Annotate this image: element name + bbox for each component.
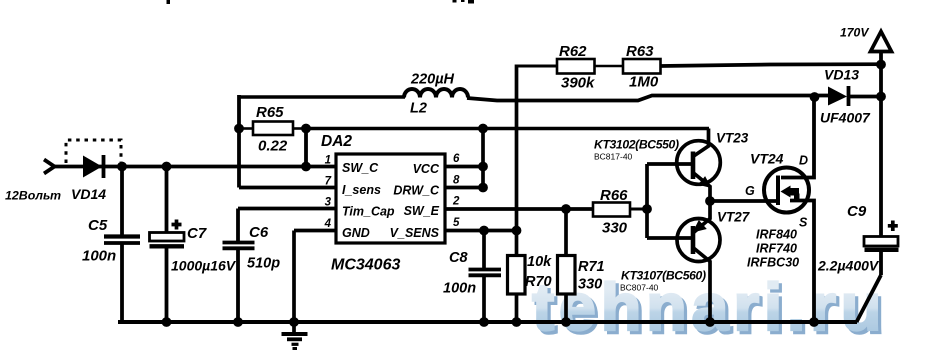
svg-text:1M0: 1M0 (629, 74, 659, 91)
svg-text:100n: 100n (82, 248, 116, 265)
wire: VT27 base (647, 236, 692, 240)
svg-text:C8: C8 (449, 250, 468, 266)
junction C6/rail (233, 317, 243, 327)
dotted outline around VD14 (66, 140, 121, 163)
capacitor C7 (electrolytic) (150, 166, 237, 322)
svg-text:SW_C: SW_C (342, 161, 379, 175)
wire: 12V input rail y=166 (53, 165, 336, 169)
svg-text:DRW_C: DRW_C (393, 184, 440, 198)
diode VD14 (71, 155, 106, 202)
svg-text:Tim_Cap: Tim_Cap (342, 205, 395, 219)
resistor R71 (558, 209, 605, 322)
svg-text:330: 330 (602, 220, 628, 237)
junction VT24 source / rail (809, 317, 819, 327)
svg-text:IRF740: IRF740 (756, 242, 797, 256)
junction pin5 / C8 (479, 226, 489, 236)
svg-text:C9: C9 (847, 203, 867, 220)
junction input/C7 (162, 162, 172, 172)
junction R63 / output rail (876, 60, 886, 70)
wire: switch node top y=97 (239, 95, 405, 99)
svg-text:8: 8 (453, 175, 460, 187)
capacitor C9 (electrolytic) (817, 203, 899, 322)
svg-text:VT27: VT27 (717, 210, 751, 225)
input connector 12V (5, 160, 61, 203)
svg-text:6: 6 (453, 153, 460, 165)
IC DA2 MC34063 (321, 133, 460, 274)
junction emitters / gate (705, 196, 715, 206)
svg-text:SW_E: SW_E (404, 204, 440, 218)
svg-text:GND: GND (342, 226, 370, 240)
transistor VT24 (MOSFET) (745, 97, 814, 322)
junction VD13 cathode / output rail (876, 92, 886, 102)
transistor VT23 (KT3102/BC550 NPN) (594, 129, 749, 202)
ground (282, 322, 308, 350)
svg-text:2: 2 (452, 196, 460, 208)
junction switch node / VT24 drain (810, 92, 820, 102)
svg-text:2.2µ400V: 2.2µ400V (817, 258, 880, 274)
junction SW_E / R71 (561, 204, 571, 214)
resistor R70 (508, 254, 553, 322)
svg-text:I_sens: I_sens (342, 183, 381, 197)
svg-text:5: 5 (453, 217, 460, 229)
svg-text:10k: 10k (527, 254, 552, 270)
resistor R63 (595, 43, 882, 91)
wire: VCC vertical x=483 (481, 129, 485, 188)
svg-text:D: D (799, 154, 808, 168)
wire: VCC rail y=128 (306, 127, 709, 131)
svg-text:12Вольт: 12Вольт (5, 189, 61, 203)
junction GND/rail (289, 317, 299, 327)
junction pin6 (478, 162, 488, 172)
svg-text:IRFBC30: IRFBC30 (747, 256, 799, 270)
svg-text:DA2: DA2 (321, 133, 352, 150)
svg-text:L2: L2 (410, 101, 427, 117)
wire: VT23 base (647, 162, 692, 166)
junction R71/rail (561, 317, 571, 327)
svg-text:330: 330 (578, 277, 602, 293)
resistor R65 (239, 104, 306, 155)
wire: base bus x=647 (645, 164, 649, 238)
svg-text:C7: C7 (187, 225, 207, 242)
svg-text:S: S (799, 216, 808, 230)
svg-text:V_SENS: V_SENS (390, 226, 440, 240)
svg-text:R66: R66 (600, 187, 628, 204)
cropped text fragment top (167, 0, 475, 4)
wire: R65 right vertical to input (304, 129, 308, 167)
svg-text:VCC: VCC (413, 162, 440, 176)
wire: R65 left vertical (L2 / I_sens) (237, 95, 241, 188)
svg-text:VT23: VT23 (716, 131, 749, 146)
junction C7/rail (162, 317, 172, 327)
svg-text:BC807-40: BC807-40 (620, 283, 659, 293)
svg-text:C6: C6 (249, 224, 269, 241)
svg-text:R65: R65 (256, 104, 284, 121)
junction C8/rail (479, 317, 489, 327)
junction R65-right (301, 124, 311, 134)
junction R66 / bases (642, 204, 652, 214)
svg-text:R63: R63 (626, 43, 654, 60)
svg-text:VD13: VD13 (824, 67, 859, 83)
wire: pin4 GND (294, 231, 336, 323)
svg-text:C5: C5 (88, 217, 108, 234)
junction input/C5 (117, 162, 127, 172)
capacitor C8 (443, 231, 501, 323)
svg-text:510p: 510p (247, 256, 280, 272)
svg-text:220µH: 220µH (410, 72, 455, 88)
svg-text:R71: R71 (578, 259, 605, 275)
wire: pin2 SW_E (445, 207, 593, 211)
resistor R66 (593, 187, 647, 237)
wire: pin5 V_SENS (445, 229, 517, 233)
wire: feedback vertical x=517 (515, 65, 519, 257)
capacitor C5 (82, 166, 140, 322)
svg-text:100n: 100n (443, 281, 476, 297)
junction V_SENS / R62-R70 (512, 226, 522, 236)
junction R65-left (234, 124, 244, 134)
junction VCC rail / pins 6-8 (478, 124, 488, 134)
output 170V arrow (840, 26, 892, 52)
inductor L2 (404, 72, 468, 117)
svg-text:MC34063: MC34063 (331, 257, 400, 274)
junction pin8 (478, 183, 488, 193)
svg-text:VT24: VT24 (750, 151, 784, 167)
wire: pin3 Tim_Cap (238, 207, 336, 211)
svg-text:170V: 170V (840, 26, 869, 40)
svg-text:UF4007: UF4007 (820, 110, 871, 126)
svg-text:R70: R70 (525, 274, 552, 290)
diode VD13 (820, 67, 881, 126)
wire: output rail x=881 (879, 52, 883, 237)
resistor R62 (517, 43, 595, 92)
svg-text:IRF840: IRF840 (756, 228, 797, 242)
wire: bottom ground rail (118, 320, 857, 324)
wire: pin7 I_sens (239, 186, 336, 190)
svg-text:KT3102(BC550): KT3102(BC550) (594, 138, 679, 152)
svg-text:G: G (745, 184, 755, 198)
svg-text:BC817-40: BC817-40 (594, 152, 633, 162)
junction R70/rail (512, 317, 522, 327)
wire: pin6 VCC (445, 165, 483, 169)
svg-text:R62: R62 (559, 43, 587, 60)
transistor VT27 (KT3107/BC560 PNP) (620, 201, 751, 322)
junction input/R65-right (301, 162, 311, 172)
svg-text:1000µ16V: 1000µ16V (171, 258, 237, 274)
junction VT27 collector / rail (705, 317, 715, 327)
svg-text:390k: 390k (561, 75, 595, 92)
svg-text:4: 4 (324, 218, 332, 230)
svg-text:1: 1 (325, 155, 331, 167)
svg-text:0.22: 0.22 (258, 138, 288, 155)
wire: pin8 DRW_C (445, 186, 483, 190)
wire: gate (710, 199, 778, 203)
capacitor C6 (223, 209, 281, 323)
svg-text:KT3107(BC560): KT3107(BC560) (621, 269, 706, 283)
wire: switch node to VD13 (467, 96, 828, 101)
svg-text:VD14: VD14 (71, 186, 106, 202)
